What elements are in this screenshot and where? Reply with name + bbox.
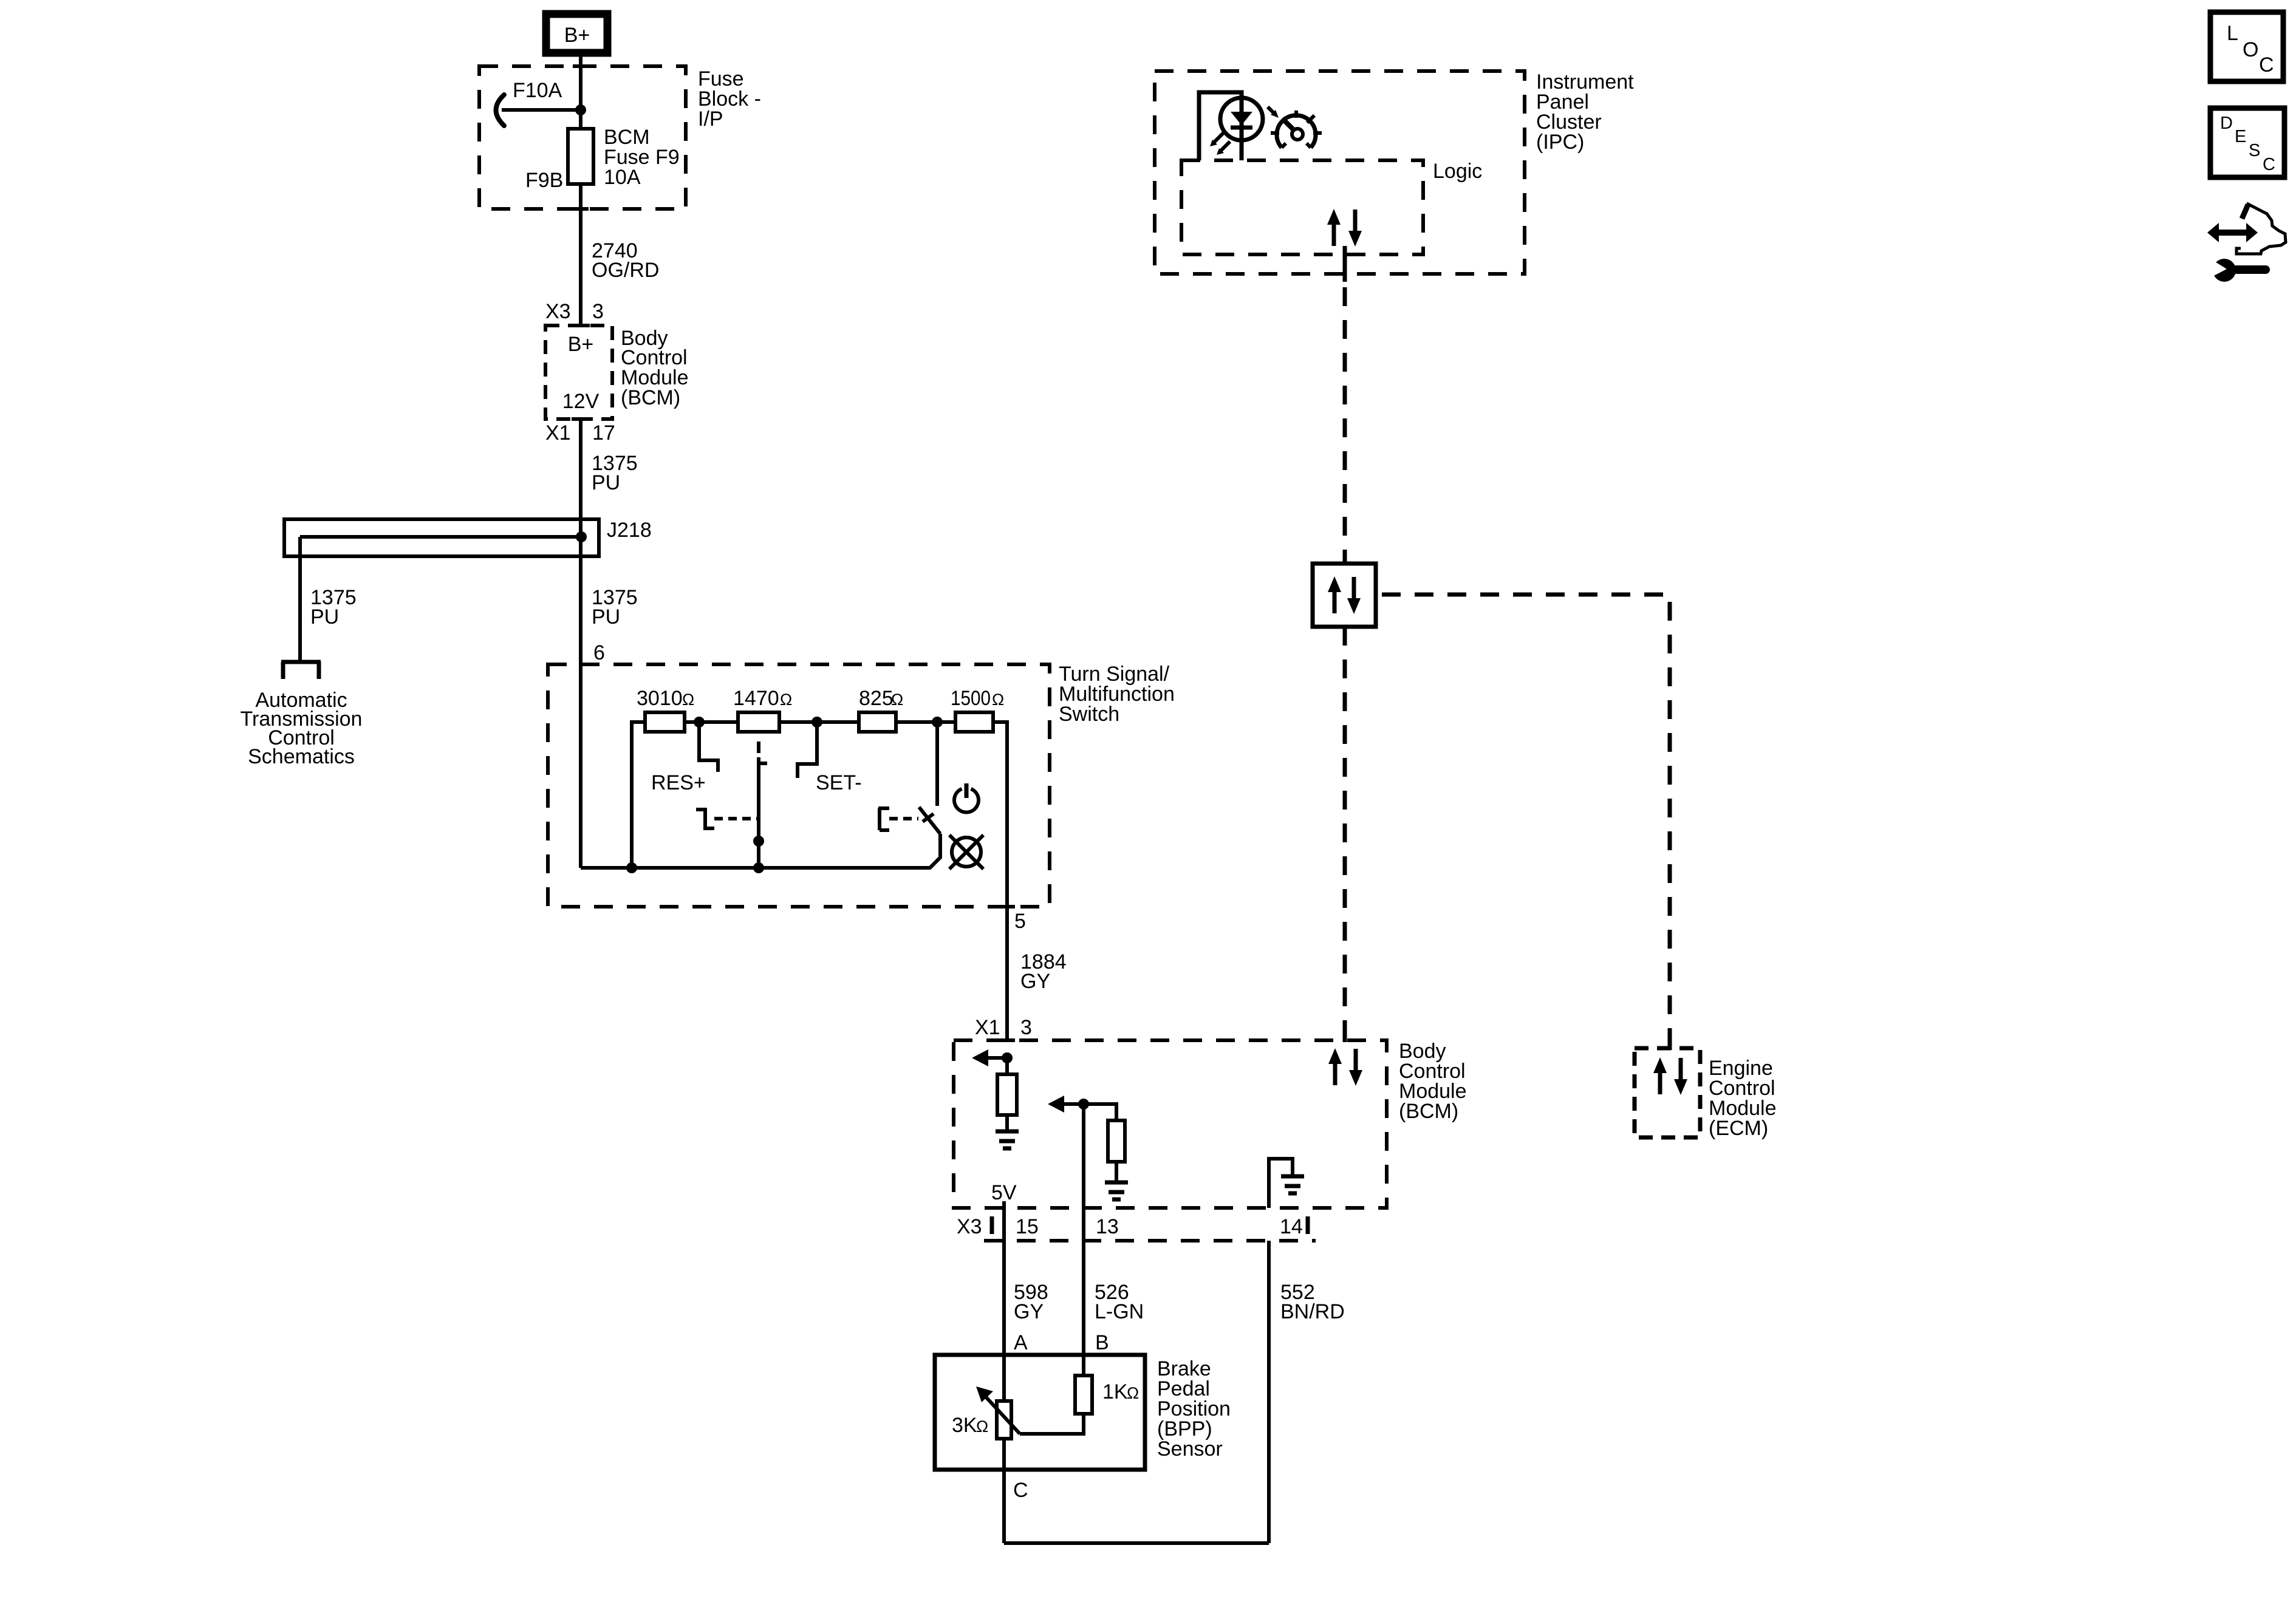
svg-text:BN/RD: BN/RD xyxy=(1280,1300,1345,1323)
wire resistor ladder left leg xyxy=(632,722,645,868)
connector arc F10A xyxy=(496,95,505,126)
svg-text:L-GN: L-GN xyxy=(1095,1300,1144,1323)
resistor 825 ohm xyxy=(859,712,896,732)
svg-text:X3: X3 xyxy=(957,1215,982,1238)
wire 1K to wiper xyxy=(1020,1414,1084,1434)
label BCM Fuse F9 10A xyxy=(604,126,680,189)
label Body Control Module (BCM) xyxy=(621,327,689,409)
wire pullup to ground xyxy=(1115,1162,1118,1181)
svg-text:GY: GY xyxy=(1020,970,1050,993)
svg-text:1K: 1K xyxy=(1102,1380,1128,1403)
linkage dashes on/off xyxy=(889,817,918,820)
svg-text:(BCM): (BCM) xyxy=(1399,1100,1458,1123)
ground BCM internal 3 xyxy=(1281,1176,1304,1193)
svg-text:6: 6 xyxy=(593,641,605,664)
dashed serial data wire IPC down xyxy=(1343,246,1347,564)
wire 552 BN/RD pin14 down xyxy=(1267,1241,1271,1543)
svg-text:A: A xyxy=(1014,1331,1028,1354)
wire BCM 12V to splice J218 xyxy=(579,419,583,537)
svg-text:3010: 3010 xyxy=(637,687,683,710)
svg-text:X3: X3 xyxy=(545,300,571,323)
svg-text:3K: 3K xyxy=(952,1414,977,1437)
wire R3 to R4 xyxy=(896,720,955,724)
wire fuse to BCM X3-3 xyxy=(579,184,583,326)
label wire 526 L-GN xyxy=(1095,1281,1144,1323)
svg-text:OG/RD: OG/RD xyxy=(592,259,659,282)
instrument panel cluster dashed box xyxy=(1155,71,1525,274)
svg-text:(ECM): (ECM) xyxy=(1709,1117,1768,1140)
svg-text:Switch: Switch xyxy=(1059,703,1119,726)
svg-text:825: 825 xyxy=(859,687,893,710)
svg-text:Ω: Ω xyxy=(891,690,903,709)
svg-text:Ω: Ω xyxy=(976,1417,988,1436)
node SET junction xyxy=(811,717,822,728)
wire LED loop xyxy=(1199,92,1242,160)
wire BPP A lower xyxy=(1002,1439,1006,1543)
svg-text:15: 15 xyxy=(1016,1215,1039,1238)
node on/off junction xyxy=(932,717,943,728)
label 3010 ohm xyxy=(637,687,694,710)
svg-text:C: C xyxy=(2259,53,2274,77)
label Body Control Module (BCM) main xyxy=(1399,1040,1467,1123)
svg-text:D: D xyxy=(2220,114,2233,133)
wire F10A branch xyxy=(502,108,581,112)
DESC legend box xyxy=(2210,108,2284,177)
svg-text:E: E xyxy=(2235,127,2246,146)
node RES junction xyxy=(694,717,705,728)
node pin13 junction xyxy=(1078,1099,1089,1110)
potentiometer 3K ohm xyxy=(997,1401,1011,1439)
svg-text:O: O xyxy=(2243,38,2258,61)
wire resistor to ground xyxy=(1005,1115,1009,1130)
LED light arrows xyxy=(1210,133,1230,155)
signal arrow pin13 xyxy=(1048,1096,1084,1113)
label Brake Pedal Position (BPP) Sensor xyxy=(1157,1357,1231,1461)
svg-text:3: 3 xyxy=(1020,1016,1032,1039)
wire J218 down to switch xyxy=(579,537,583,663)
off-page connector to ATCS xyxy=(281,662,321,679)
resistor BCM pulldown xyxy=(997,1074,1017,1115)
label Automatic Transmission Control Schematics xyxy=(241,689,363,768)
svg-text:3: 3 xyxy=(592,300,604,323)
wire R1 to R2 xyxy=(685,720,738,724)
on/off fixed contact wire xyxy=(935,722,939,806)
label wire 1375 PU left xyxy=(310,586,357,629)
svg-text:B+: B+ xyxy=(568,333,594,356)
up/down arrows ECM xyxy=(1653,1057,1687,1095)
svg-text:F9B: F9B xyxy=(525,169,563,192)
label X1 pin 3 xyxy=(975,1016,1032,1039)
svg-text:Ω: Ω xyxy=(1127,1384,1139,1402)
label wire 598 GY xyxy=(1014,1281,1048,1323)
label 1K ohm xyxy=(1102,1380,1139,1403)
svg-text:Logic: Logic xyxy=(1433,160,1482,183)
wiper arrow xyxy=(976,1386,1020,1434)
RES+ fixed contact xyxy=(699,722,718,772)
wire pin13 down xyxy=(1082,1104,1085,1241)
label 825 ohm xyxy=(859,687,903,710)
resistor 3010 ohm xyxy=(645,712,685,732)
wire pin6 inside switch to bus xyxy=(579,663,583,868)
svg-text:J218: J218 xyxy=(607,519,652,542)
svg-text:5: 5 xyxy=(1014,910,1026,933)
node blade-bus junction xyxy=(753,862,764,873)
logic dashed box xyxy=(1181,160,1423,254)
svg-text:B: B xyxy=(1095,1331,1109,1354)
gauge icon xyxy=(1271,111,1322,148)
fuse block I/P dashed box xyxy=(479,66,686,209)
label Engine Control Module (ECM) xyxy=(1709,1057,1777,1140)
indicator LED xyxy=(1220,98,1263,140)
wire 526 L-GN pin13 to BPP B xyxy=(1082,1241,1085,1376)
svg-text:PU: PU xyxy=(592,605,620,629)
splice J218 xyxy=(284,519,599,556)
wire R2 to R3 xyxy=(779,720,859,724)
linkage bracket RES/SET xyxy=(696,810,714,828)
turn signal / multifunction switch dashed box xyxy=(548,664,1050,907)
cruise selector blade xyxy=(759,742,767,868)
label 3K ohm xyxy=(952,1414,988,1437)
up/down arrows BCM serial xyxy=(1328,1048,1362,1086)
label X3 connector row xyxy=(957,1215,1303,1238)
svg-text:5V: 5V xyxy=(991,1181,1017,1204)
LOC legend box xyxy=(2210,12,2283,81)
SET- fixed contact xyxy=(798,722,817,778)
resistor 1470 ohm xyxy=(738,712,779,732)
svg-text:Ω: Ω xyxy=(992,690,1004,709)
vehicle data icon car outline xyxy=(2236,204,2286,254)
svg-text:PU: PU xyxy=(310,605,339,629)
node J218 junction xyxy=(576,531,587,542)
label wire 552 BN/RD xyxy=(1280,1281,1345,1323)
label Instrument Panel Cluster (IPC) xyxy=(1536,70,1634,154)
svg-text:GY: GY xyxy=(1014,1300,1044,1323)
engine control module dashed box xyxy=(1635,1048,1700,1137)
linkage dashes RES/SET xyxy=(714,817,759,820)
svg-text:10A: 10A xyxy=(604,166,641,189)
wire R4 to pin 5 xyxy=(993,722,1007,1040)
wire to pullup resistor xyxy=(1084,1104,1116,1120)
svg-text:F10A: F10A xyxy=(513,79,562,102)
label X3 pin 3 xyxy=(545,300,604,323)
gauge pointer arrow xyxy=(1268,107,1279,118)
svg-text:12V: 12V xyxy=(562,390,600,413)
svg-text:S: S xyxy=(2249,141,2260,160)
label 1500 ohm xyxy=(951,687,1004,710)
linkage bracket on/off xyxy=(878,808,889,830)
wire common bus xyxy=(581,834,940,868)
svg-text:(IPC): (IPC) xyxy=(1536,131,1584,154)
dashed serial data wire to BCM xyxy=(1343,627,1347,1042)
wire bottom return xyxy=(1004,1541,1269,1545)
fuse F9 xyxy=(568,129,593,184)
label wire 1375 PU right xyxy=(592,586,638,629)
label wire 1375 PU upper xyxy=(592,452,638,494)
up/down arrows junction box xyxy=(1328,576,1361,614)
svg-text:17: 17 xyxy=(592,421,615,445)
power symbol xyxy=(954,783,979,813)
label Turn Signal/Multifunction Switch xyxy=(1059,663,1175,726)
label 1470 ohm xyxy=(733,687,792,710)
svg-text:Ω: Ω xyxy=(780,690,792,709)
svg-text:RES+: RES+ xyxy=(651,771,706,794)
serial data junction box xyxy=(1313,564,1376,627)
node bus-left junction xyxy=(626,862,637,873)
battery feed B+ terminal box xyxy=(546,14,607,53)
svg-text:C: C xyxy=(1013,1479,1028,1502)
svg-text:Schematics: Schematics xyxy=(248,745,355,768)
resistor 1500 ohm xyxy=(955,712,993,732)
svg-text:1500: 1500 xyxy=(951,687,991,710)
wrench icon xyxy=(2209,258,2266,282)
wire to pulldown resistor xyxy=(1005,1058,1009,1074)
wire pin14 to ground xyxy=(1269,1159,1293,1208)
wire tick at switch box bottom xyxy=(999,905,1015,909)
svg-text:14: 14 xyxy=(1280,1215,1303,1238)
svg-text:B+: B+ xyxy=(564,24,590,47)
svg-text:13: 13 xyxy=(1096,1215,1119,1238)
BCM power dashed box xyxy=(545,326,612,419)
svg-text:1470: 1470 xyxy=(733,687,779,710)
svg-text:X1: X1 xyxy=(545,421,571,445)
connector X3 dashed bracket xyxy=(984,1216,1316,1241)
label wire 2740 OG/RD xyxy=(592,239,659,282)
svg-text:SET-: SET- xyxy=(816,771,862,794)
wire J218 left branch xyxy=(298,537,302,660)
BCM main dashed box xyxy=(954,1040,1387,1208)
node junction at fuse feed xyxy=(575,104,586,115)
label X1 pin 17 xyxy=(545,421,615,445)
dashed serial data branch to ECM xyxy=(1376,595,1670,1050)
ground BCM internal 1 xyxy=(996,1131,1019,1148)
resistor 1K ohm xyxy=(1075,1376,1092,1414)
signal arrow into BCM logic xyxy=(972,1049,1007,1066)
node BCM input junction xyxy=(1002,1052,1013,1063)
ground BCM internal 2 xyxy=(1105,1182,1128,1199)
svg-text:X1: X1 xyxy=(975,1016,1000,1039)
svg-text:Sensor: Sensor xyxy=(1157,1437,1223,1461)
svg-text:I/P: I/P xyxy=(698,107,723,131)
svg-text:L: L xyxy=(2227,22,2238,45)
node blade junction xyxy=(753,836,764,847)
BPP sensor box xyxy=(935,1355,1145,1470)
vehicle data icon double arrow xyxy=(2207,223,2258,242)
wire 598 GY pin15 to BPP A xyxy=(1002,1241,1006,1401)
wire B+ to fuse F9 xyxy=(579,56,583,129)
svg-text:C: C xyxy=(2263,155,2275,174)
up/down arrows IPC logic xyxy=(1327,209,1362,247)
svg-text:(BCM): (BCM) xyxy=(621,386,680,409)
label Fuse Block - I/P xyxy=(698,67,761,131)
svg-text:Ω: Ω xyxy=(682,690,694,709)
svg-text:PU: PU xyxy=(592,471,620,494)
label wire 1884 GY xyxy=(1020,950,1067,993)
wire 5V pin15 xyxy=(1002,1201,1006,1241)
on/off switch blade xyxy=(919,807,940,834)
lamp symbol xyxy=(949,835,983,869)
resistor BCM pullup xyxy=(1108,1120,1125,1162)
